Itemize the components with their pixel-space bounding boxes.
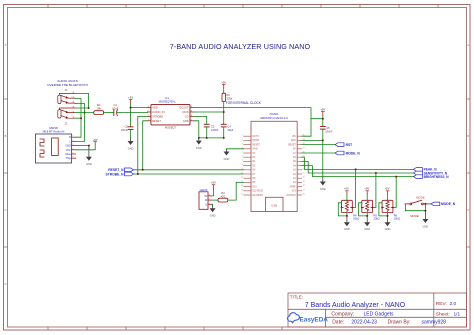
ground S3: [385, 222, 391, 231]
svg-text:J2: J2: [65, 121, 68, 125]
bluetooth module MW18: [35, 126, 75, 163]
svg-text:3: 3: [191, 106, 192, 108]
svg-text:5: 5: [72, 153, 73, 155]
ground LEDS: [210, 208, 216, 217]
title block frame: [288, 293, 467, 327]
svg-text:J1: J1: [65, 88, 68, 92]
resistor R1: [94, 111, 104, 115]
node S1 left junction: [341, 207, 343, 209]
svg-text:2: 2: [72, 97, 73, 99]
svg-text:16: 16: [303, 194, 305, 196]
capacitor C5: [320, 127, 325, 130]
node J1 sleeve / J2 sleeve junction: [88, 107, 90, 109]
svg-text:RESET: RESET: [152, 119, 161, 123]
svg-text:21: 21: [303, 173, 305, 175]
svg-text:2: 2: [72, 111, 73, 113]
net flag BRIGHTNESS_N: [413, 175, 449, 179]
svg-text:1: 1: [72, 92, 73, 94]
svg-text:CG: CG: [185, 114, 189, 118]
node S3 right junction: [392, 207, 394, 209]
button S1 with resistor R4: [342, 200, 360, 220]
node rail junction left: [198, 137, 200, 139]
wire S1 bypass loop: [338, 203, 347, 216]
node C5 gnd junction: [322, 139, 324, 141]
svg-text:MODE_N: MODE_N: [441, 202, 456, 206]
svg-text:GND: GND: [128, 146, 134, 150]
wire +5V to S1: [346, 194, 348, 200]
svg-text:CKIN: CKIN: [182, 110, 188, 114]
svg-text:OVERIDE THE BLUETOOTH: OVERIDE THE BLUETOOTH: [47, 83, 88, 87]
svg-text:1: 1: [242, 135, 243, 137]
svg-text:100nF: 100nF: [211, 128, 219, 132]
svg-text:G: G: [206, 204, 208, 206]
svg-text:8: 8: [191, 111, 192, 113]
power +5V LEDS: [211, 181, 216, 188]
wire nano A7 to MODE_N flag: [302, 152, 335, 154]
svg-text:3: 3: [72, 116, 73, 118]
svg-text:MODE_N: MODE_N: [346, 151, 361, 155]
svg-text:10k: 10k: [96, 107, 101, 111]
wire +5V to LEDS pin1: [211, 188, 213, 196]
power +5V U1 VDD: [128, 96, 133, 103]
wire M18 VCC pin: [76, 144, 95, 150]
svg-text:GND: GND: [320, 187, 326, 191]
audio jack J1: [58, 94, 75, 104]
wire C1 to U1 AUDIO_IN: [117, 112, 147, 114]
node rail junction C4: [223, 137, 225, 139]
svg-text:R: R: [69, 136, 71, 139]
node M18 gnd junction: [88, 145, 90, 147]
ground S2: [364, 222, 370, 231]
resistor R3: [218, 198, 228, 202]
svg-text:GND: GND: [423, 224, 429, 228]
wire R3 to nano D11: [228, 182, 244, 200]
svg-text:7: 7: [242, 160, 243, 162]
ground nano left: [224, 152, 230, 161]
node S1 gnd junction: [346, 215, 348, 217]
svg-text:GND: GND: [385, 227, 391, 231]
svg-text:AUDIO_IN: AUDIO_IN: [152, 110, 164, 114]
svg-text:2: 2: [242, 139, 243, 141]
net flag RESET_N: [108, 168, 133, 172]
net flag STROBE_N: [106, 172, 134, 176]
ground S1: [344, 222, 350, 231]
svg-text:2: 2: [209, 199, 210, 201]
svg-text:Sheet:: Sheet:: [436, 311, 450, 317]
node S2 gnd junction: [366, 215, 368, 217]
svg-text:+5V: +5V: [364, 187, 369, 191]
wire nano A4 to BRIGHTNESS_N bus: [302, 166, 414, 177]
svg-text:7 Bands Audio Analyzer - NANO: 7 Bands Audio Analyzer - NANO: [305, 302, 406, 309]
node +5V junction: [322, 118, 324, 120]
wire nano RESET to RST flag: [302, 144, 335, 146]
svg-text:D0/RX: D0/RX: [252, 140, 259, 142]
svg-text:33pF: 33pF: [227, 128, 233, 132]
svg-text:GND: GND: [364, 227, 370, 231]
power +5V S1: [344, 187, 349, 194]
wire S2 to ground: [366, 213, 368, 216]
svg-text:GND: GND: [86, 162, 92, 166]
svg-text:Play: Play: [66, 157, 71, 160]
ground U1 rail: [196, 138, 202, 150]
power +5V S2: [364, 187, 369, 194]
svg-text:B: B: [5, 134, 7, 138]
wire C2 to ground: [130, 129, 132, 138]
node MODE junction b: [424, 210, 426, 212]
svg-text:D11/MOSI: D11/MOSI: [252, 191, 263, 193]
svg-text:+5V: +5V: [221, 80, 226, 84]
svg-text:10kΩ: 10kΩ: [394, 217, 400, 221]
capacitor C4: [221, 124, 226, 127]
node RESET_N junction: [142, 169, 144, 171]
svg-text:GND: GND: [224, 157, 230, 161]
svg-text:4: 4: [72, 148, 73, 150]
svg-text:5V: 5V: [293, 149, 296, 151]
svg-text:Mute: Mute: [65, 153, 71, 156]
net flag MODE_N output: [431, 202, 456, 206]
wire audio line to R1: [75, 112, 94, 114]
wire MODE to flag: [428, 203, 431, 205]
net flag RST: [335, 143, 352, 147]
node rail junction C3: [206, 137, 208, 139]
node VDD junction: [130, 107, 132, 109]
svg-text:TITLE:: TITLE:: [290, 295, 303, 300]
wire net STROBE_N: [134, 173, 244, 175]
svg-text:3: 3: [72, 102, 73, 104]
button S3 with resistor R6: [382, 200, 400, 220]
svg-text:RESET: RESET: [288, 144, 296, 146]
svg-text:USB: USB: [271, 203, 277, 207]
wire U1 RESET to RESET_N line: [143, 121, 148, 170]
svg-text:100nF: 100nF: [121, 128, 129, 132]
svg-text:M18 BT Audio IN: M18 BT Audio IN: [43, 130, 65, 134]
connector J3 LEDS: [199, 188, 211, 210]
wire +5V stem to C5: [311, 116, 323, 127]
svg-text:15: 15: [241, 194, 243, 196]
svg-text:D13/SCK: D13/SCK: [286, 195, 296, 197]
wire S1 to ground: [346, 213, 348, 216]
svg-text:100nF: 100nF: [325, 129, 333, 133]
svg-text:8: 8: [242, 164, 243, 166]
node SENSITIVITY_N bus junction: [375, 172, 377, 174]
svg-text:3: 3: [242, 143, 243, 145]
svg-text:200k: 200k: [227, 97, 233, 101]
svg-text:VCC: VCC: [66, 149, 71, 152]
node S3 left junction: [381, 207, 383, 209]
svg-text:30: 30: [303, 135, 305, 137]
power +5V S3: [385, 187, 390, 194]
svg-text:REV:: REV:: [436, 301, 447, 307]
svg-text:BRIGHTNESS_N: BRIGHTNESS_N: [424, 175, 450, 179]
svg-text:STROBE_N: STROBE_N: [106, 172, 125, 176]
svg-text:6: 6: [242, 156, 243, 158]
svg-text:RST: RST: [346, 143, 353, 147]
svg-text:+5V: +5V: [385, 187, 390, 191]
svg-text:C: C: [5, 208, 7, 212]
svg-text:D10: D10: [252, 186, 257, 188]
capacitor C1: [114, 110, 118, 116]
wire U1 STROBE to STROBE_N line: [138, 116, 148, 174]
svg-text:1: 1: [148, 106, 149, 108]
svg-text:10: 10: [241, 173, 243, 175]
wire M18 GND pin: [76, 145, 89, 147]
svg-text:D1/TX: D1/TX: [252, 136, 259, 138]
svg-text:2: 2: [72, 140, 73, 142]
wire U1 DCOUT to nano: [194, 108, 311, 137]
net flag PEAK_N: [413, 168, 437, 172]
wire +5V to S2: [366, 194, 368, 200]
svg-text:DCOUT: DCOUT: [179, 106, 189, 110]
svg-text:GND: GND: [210, 214, 216, 218]
svg-text:3: 3: [209, 203, 210, 205]
svg-text:5: 5: [242, 152, 243, 154]
svg-text:GND: GND: [291, 140, 296, 142]
wire LEDS pin3 to ground: [211, 204, 212, 205]
svg-text:LED Gadgets: LED Gadgets: [364, 311, 395, 317]
svg-text:11: 11: [241, 177, 243, 179]
svg-text:6: 6: [72, 157, 73, 159]
svg-text:27: 27: [303, 147, 305, 149]
wire nano GND right row to C5 stem and ground: [302, 129, 323, 178]
svg-text:2: 2: [191, 119, 192, 121]
svg-text:+5V: +5V: [344, 187, 349, 191]
net flag MODE_N input: [335, 151, 360, 155]
svg-text:1: 1: [72, 136, 73, 138]
svg-text:Company:: Company:: [331, 311, 354, 317]
node S2 left junction: [361, 207, 363, 209]
power +5V nano: [320, 107, 325, 115]
svg-text:5: 5: [148, 111, 149, 113]
ground C5: [320, 182, 326, 191]
wire PEAK_N bus to S1: [352, 169, 355, 207]
svg-text:13: 13: [241, 185, 243, 187]
wire net RESET_N: [134, 169, 244, 171]
node PEAK_N bus junction: [355, 168, 357, 170]
svg-text:9: 9: [242, 168, 243, 170]
svg-text:4: 4: [148, 115, 149, 117]
EasyEDA logo cloud: [288, 313, 300, 323]
svg-text:C: C: [467, 208, 469, 212]
svg-text:+5V: +5V: [211, 181, 216, 185]
wire C3 C4 ground rail: [199, 127, 224, 138]
node MODE junction a: [424, 203, 426, 205]
node BRIGHTNESS_N bus junction: [395, 176, 397, 178]
ground MODE: [422, 219, 428, 228]
wire U1 CKIN: [194, 111, 224, 113]
svg-text:R2: R2: [227, 93, 231, 97]
svg-text:7: 7: [148, 119, 149, 121]
svg-text:10uF: 10uF: [112, 107, 119, 111]
wire SENSITIVITY_N bus to S2: [373, 173, 376, 208]
svg-text:GND: GND: [65, 145, 71, 148]
svg-text:7-BAND AUDIO ANALYZER USING NA: 7-BAND AUDIO ANALYZER USING NANO: [170, 42, 311, 51]
svg-text:1: 1: [209, 194, 210, 196]
button S2 with resistor R5: [362, 200, 380, 220]
svg-text:Drawn By:: Drawn By:: [388, 320, 411, 326]
svg-text:RESET: RESET: [252, 144, 260, 146]
wire MODE switch loop to ground: [405, 204, 426, 211]
node J2 ring junction: [80, 117, 82, 119]
svg-text:A: A: [467, 43, 469, 47]
wire nano A6 to PEAK_N bus: [302, 157, 414, 169]
wire S3 bypass loop: [379, 203, 388, 216]
wire LEDS pin2 to R3: [211, 199, 218, 201]
svg-text:C5: C5: [326, 126, 330, 130]
svg-text:3: 3: [72, 144, 73, 146]
transistor U2 arduino nano: [241, 112, 305, 211]
svg-text:C2: C2: [125, 125, 129, 129]
svg-text:sammy928: sammy928: [422, 320, 447, 326]
svg-text:D: D: [5, 282, 7, 286]
ground M18: [86, 157, 92, 166]
svg-text:19: 19: [303, 181, 305, 183]
wire U1 CG to C3: [194, 116, 207, 124]
svg-text:17: 17: [303, 189, 305, 191]
svg-text:2.0: 2.0: [450, 301, 457, 307]
wire S3 to ground: [387, 213, 389, 216]
svg-text:18: 18: [303, 185, 305, 187]
svg-text:14: 14: [241, 189, 243, 191]
wire R2 to CKIN node and C4: [223, 102, 225, 125]
svg-text:+5V: +5V: [128, 96, 133, 100]
ground C2: [128, 141, 134, 150]
resistor R2: [222, 93, 226, 101]
svg-text:3V3: 3V3: [292, 191, 297, 193]
wire nano GND left to ground: [227, 149, 244, 150]
wire R1 to C1: [104, 112, 114, 114]
switch SW1 MODE: [405, 195, 428, 218]
svg-text:B: B: [467, 134, 469, 138]
svg-text:VIN: VIN: [292, 136, 296, 138]
svg-text:+5V: +5V: [320, 107, 325, 111]
wire jack bus verticals: [75, 94, 89, 142]
wire nano A5 to SENSITIVITY_N bus: [302, 161, 414, 173]
svg-text:AREF: AREF: [290, 185, 297, 188]
svg-text:GND: GND: [344, 227, 350, 231]
svg-text:FOR INTERNAL CLOCK: FOR INTERNAL CLOCK: [226, 101, 262, 105]
wire +5V to S3: [387, 194, 389, 200]
svg-text:EasyEDA: EasyEDA: [300, 316, 329, 323]
svg-text:10kΩ: 10kΩ: [374, 217, 380, 221]
capacitor C3: [204, 124, 209, 127]
svg-text:A: A: [5, 43, 7, 47]
svg-text:1/1: 1/1: [454, 311, 461, 317]
audio jack J2: [58, 108, 75, 119]
wire BRIGHTNESS_N bus to S3: [393, 177, 396, 208]
node S2 right junction: [372, 207, 374, 209]
svg-text:GND: GND: [183, 119, 189, 123]
op-amp U1 MSGEQ7: [147, 96, 193, 130]
node S3 gnd junction: [387, 215, 389, 217]
svg-text:2022-04-23: 2022-04-23: [351, 320, 377, 326]
svg-text:470: 470: [221, 194, 226, 198]
node S1 right junction: [351, 207, 353, 209]
node STROBE_N junction: [137, 173, 139, 175]
svg-text:DI: DI: [205, 200, 208, 202]
capacitor C2: [128, 127, 133, 130]
wire U1 GND to rail: [194, 121, 199, 138]
wire S2 bypass loop: [359, 203, 368, 216]
svg-text:VDD: VDD: [152, 106, 158, 110]
svg-text:MSGEQ7DIL: MSGEQ7DIL: [159, 100, 176, 104]
net flag SENSITIVITY_N: [413, 171, 447, 175]
svg-text:GND: GND: [196, 146, 202, 150]
svg-text:20: 20: [303, 177, 305, 179]
svg-text:MODE: MODE: [416, 195, 425, 199]
svg-text:D12/MISO: D12/MISO: [252, 195, 263, 197]
svg-text:STROBE: STROBE: [152, 114, 163, 118]
svg-text:MODE: MODE: [410, 214, 419, 218]
wire +5V to VDD and C2: [131, 103, 148, 127]
svg-text:1: 1: [72, 106, 73, 108]
power +5V M18: [93, 138, 98, 144]
power +5V R2: [221, 80, 226, 93]
svg-text:6: 6: [191, 115, 192, 117]
node audio mix junction: [84, 112, 86, 114]
node CKIN junction: [223, 111, 225, 113]
svg-text:C3: C3: [211, 124, 215, 128]
svg-text:5V: 5V: [204, 196, 207, 198]
svg-text:Date:: Date:: [332, 320, 344, 326]
svg-text:ARDUINO-NANO-3.0: ARDUINO-NANO-3.0: [260, 116, 288, 120]
svg-text:C4: C4: [227, 124, 231, 128]
svg-text:10kΩ: 10kΩ: [353, 217, 359, 221]
svg-text:MSGEQ7: MSGEQ7: [165, 127, 176, 130]
svg-text:GND: GND: [252, 149, 257, 151]
svg-text:LEDS: LEDS: [200, 188, 208, 192]
